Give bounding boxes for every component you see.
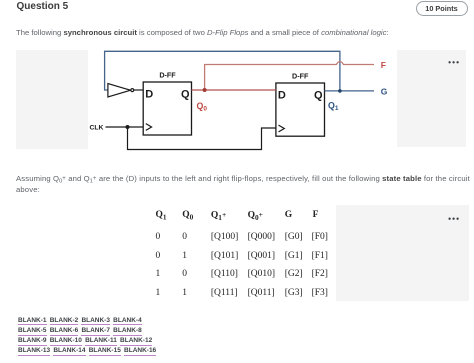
wire CLK branch to U2 clock [128, 127, 276, 150]
state table [156, 210, 167, 220]
wire F line (red) with hop over blue wire [205, 62, 374, 91]
blank answer fields [18, 317, 145, 326]
table-side gray image placeholder [336, 205, 469, 301]
wire CLK to U1 clock [106, 126, 144, 128]
junction node Q1 [338, 89, 342, 93]
svg-text:D: D [278, 89, 286, 101]
svg-text:Q0: Q0 [197, 101, 208, 113]
d-flip-flop U1 (left D-FF) [143, 82, 191, 135]
svg-text:Q: Q [181, 88, 190, 100]
wire Q0 to D of U2 (red) [192, 89, 276, 91]
junction node CLK [126, 125, 130, 129]
svg-text:D-FF: D-FF [292, 72, 309, 81]
left gray image placeholder [16, 50, 88, 149]
svg-text:Q1: Q1 [328, 101, 339, 113]
clock pin symbol (U1) [146, 124, 152, 131]
svg-text:F: F [381, 60, 386, 70]
svg-text:D-FF: D-FF [159, 71, 176, 80]
svg-text:Q: Q [314, 89, 323, 101]
d-flip-flop U2 (right D-FF) [276, 83, 325, 136]
svg-text:D: D [145, 88, 153, 100]
options menu dots (table) [448, 218, 458, 220]
right gray image placeholder [397, 50, 466, 147]
options menu dots (circuit) [448, 61, 458, 63]
wire G feedback (blue): Q1 up, across top, down to inverter input [105, 51, 340, 91]
svg-text:CLK: CLK [90, 125, 104, 132]
clock pin symbol (U2) [279, 125, 285, 132]
svg-text:G: G [381, 86, 388, 96]
wire Q1 to G (blue) [325, 90, 375, 92]
wire inverter output to D of U1 [134, 89, 143, 91]
inverter (NOT gate) [108, 84, 131, 97]
junction node Q0 [203, 88, 207, 92]
